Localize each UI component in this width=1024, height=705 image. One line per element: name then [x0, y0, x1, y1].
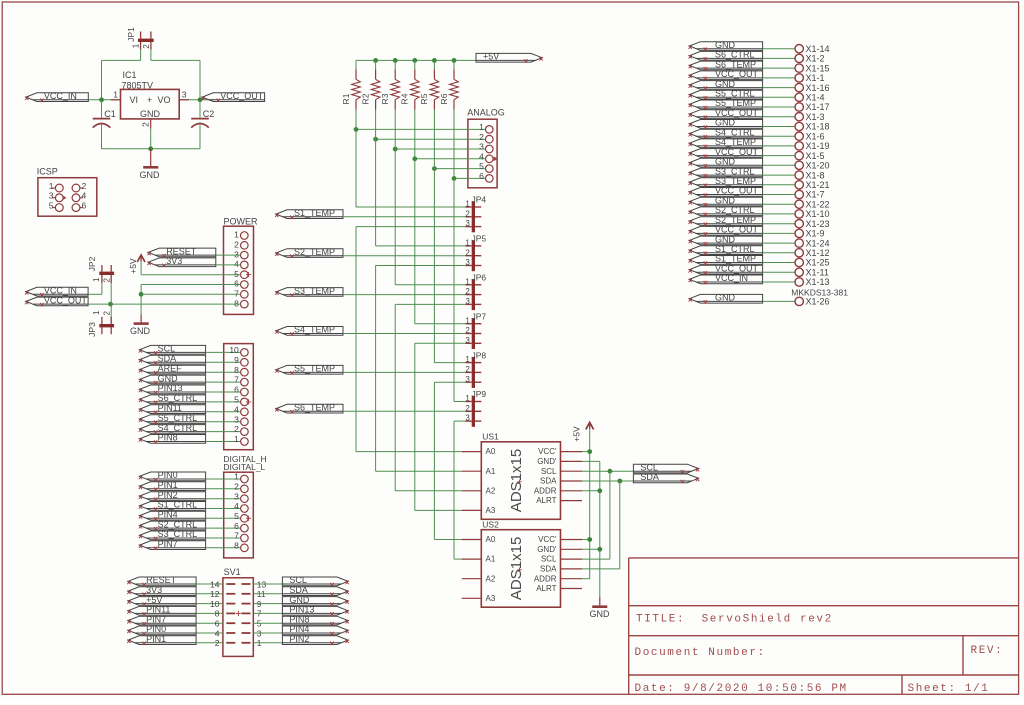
svg-text:10: 10: [210, 599, 220, 609]
svg-text:4: 4: [234, 259, 239, 269]
svg-text:5: 5: [479, 161, 484, 171]
svg-text:ADS1x15: ADS1x15: [508, 537, 525, 600]
svg-text:X1-1: X1-1: [806, 73, 825, 83]
svg-text:PIN4: PIN4: [289, 624, 309, 634]
svg-text:+5V: +5V: [128, 258, 138, 274]
svg-text:X1-10: X1-10: [806, 209, 830, 219]
svg-text:VCC_OUT: VCC_OUT: [220, 91, 264, 101]
svg-text:X1-24: X1-24: [806, 238, 830, 248]
svg-text:2: 2: [215, 638, 220, 648]
svg-text:JP8: JP8: [472, 350, 487, 360]
svg-text:6: 6: [234, 385, 239, 395]
svg-text:X1-19: X1-19: [806, 141, 830, 151]
svg-text:3V3: 3V3: [146, 585, 162, 595]
svg-text:6: 6: [234, 521, 239, 531]
svg-text:X1-14: X1-14: [806, 44, 830, 54]
svg-text:1: 1: [234, 230, 239, 240]
svg-text:GND: GND: [715, 40, 736, 50]
svg-text:2: 2: [142, 44, 151, 49]
svg-text:4: 4: [234, 501, 239, 511]
svg-text:X1-4: X1-4: [806, 93, 825, 103]
svg-text:2: 2: [465, 326, 470, 335]
svg-text:S2_CTRL: S2_CTRL: [158, 519, 198, 529]
svg-text:R4: R4: [400, 93, 410, 104]
svg-text:1: 1: [113, 90, 118, 100]
svg-text:GND: GND: [715, 157, 736, 167]
svg-text:5: 5: [234, 511, 239, 521]
svg-text:X1-20: X1-20: [806, 161, 830, 171]
svg-text:SDA: SDA: [289, 585, 308, 595]
svg-text:GND: GND: [140, 109, 161, 119]
svg-text:PIN1: PIN1: [158, 480, 178, 490]
svg-text:RESET: RESET: [146, 575, 177, 585]
svg-text:S5_CTRL: S5_CTRL: [715, 89, 755, 99]
svg-text:1: 1: [465, 355, 470, 364]
svg-text:S2_CTRL: S2_CTRL: [715, 205, 755, 215]
svg-text:1: 1: [92, 277, 101, 282]
svg-text:S1_TEMP: S1_TEMP: [715, 254, 756, 264]
svg-text:+: +: [147, 95, 152, 105]
svg-text:3: 3: [49, 191, 54, 201]
svg-text:VCC_IN: VCC_IN: [715, 273, 748, 283]
svg-text:RESET: RESET: [166, 246, 197, 256]
svg-text:VCC_IN: VCC_IN: [44, 286, 77, 296]
svg-text:Document Number:: Document Number:: [635, 647, 766, 659]
svg-text:PIN13: PIN13: [158, 383, 183, 393]
svg-text:S6_TEMP: S6_TEMP: [715, 59, 756, 69]
svg-text:3V3: 3V3: [166, 256, 182, 266]
svg-text:Sheet: 1/1: Sheet: 1/1: [908, 683, 990, 695]
svg-text:ADDR: ADDR: [534, 486, 557, 495]
svg-text:2: 2: [234, 424, 239, 434]
svg-text:GND': GND': [537, 457, 557, 466]
svg-text:2: 2: [465, 248, 470, 257]
svg-text:GND: GND: [130, 326, 151, 336]
svg-text:S6_TEMP: S6_TEMP: [294, 403, 335, 413]
svg-text:C2: C2: [203, 109, 215, 119]
svg-text:7805TV: 7805TV: [122, 80, 154, 90]
svg-text:S5_TEMP: S5_TEMP: [294, 364, 335, 374]
svg-text:6: 6: [479, 171, 484, 181]
svg-text:S3_CTRL: S3_CTRL: [715, 166, 755, 176]
svg-text:A3: A3: [486, 594, 496, 603]
svg-text:X1-22: X1-22: [806, 199, 830, 209]
svg-text:3: 3: [465, 297, 470, 306]
svg-text:SDA: SDA: [540, 565, 557, 574]
svg-text:VO: VO: [158, 95, 171, 105]
svg-text:S5_TEMP: S5_TEMP: [715, 98, 756, 108]
svg-text:X1-23: X1-23: [806, 219, 830, 229]
svg-text:VCC_OUT: VCC_OUT: [715, 225, 759, 235]
svg-text:PIN1: PIN1: [146, 634, 166, 644]
svg-text:1: 1: [49, 181, 54, 191]
svg-text:3: 3: [465, 336, 470, 345]
svg-text:X1-6: X1-6: [806, 131, 825, 141]
svg-text:3: 3: [234, 414, 239, 424]
svg-text:3: 3: [465, 375, 470, 384]
svg-text:2: 2: [465, 209, 470, 218]
svg-text:PIN13: PIN13: [289, 605, 314, 615]
svg-text:JP7: JP7: [472, 311, 487, 321]
svg-text:S4_TEMP: S4_TEMP: [715, 137, 756, 147]
svg-text:GND': GND': [537, 545, 557, 554]
svg-text:PIN11: PIN11: [158, 403, 182, 413]
svg-text:+5V: +5V: [571, 426, 581, 442]
svg-text:X1-21: X1-21: [806, 180, 830, 190]
svg-text:VCC_OUT: VCC_OUT: [715, 264, 759, 274]
svg-text:1: 1: [479, 122, 484, 132]
svg-text:ALRT: ALRT: [536, 496, 556, 505]
svg-text:JP9: JP9: [472, 389, 487, 399]
svg-text:GND: GND: [140, 170, 161, 180]
svg-text:X1-12: X1-12: [806, 248, 830, 258]
svg-text:VCC_OUT: VCC_OUT: [715, 108, 759, 118]
svg-text:R6: R6: [439, 93, 449, 104]
svg-text:4: 4: [234, 404, 239, 414]
svg-text:S6_CTRL: S6_CTRL: [158, 393, 198, 403]
svg-text:S3_CTRL: S3_CTRL: [158, 529, 198, 539]
svg-text:6: 6: [215, 619, 220, 629]
svg-text:2: 2: [465, 365, 470, 374]
svg-text:PIN7: PIN7: [158, 539, 178, 549]
svg-text:2: 2: [465, 404, 470, 413]
svg-text:2: 2: [102, 311, 111, 316]
svg-text:PIN0: PIN0: [146, 624, 166, 634]
svg-text:SV1: SV1: [224, 567, 241, 577]
svg-text:X1-26: X1-26: [806, 297, 830, 307]
svg-text:1: 1: [465, 239, 470, 248]
svg-text:X1-17: X1-17: [806, 102, 830, 112]
svg-text:S4_CTRL: S4_CTRL: [158, 423, 198, 433]
svg-text:9: 9: [234, 355, 239, 365]
svg-text:ANALOG: ANALOG: [467, 108, 505, 118]
svg-text:ADDR: ADDR: [534, 574, 557, 583]
svg-text:2: 2: [234, 481, 239, 491]
svg-text:VCC': VCC': [538, 447, 557, 456]
svg-text:PIN8: PIN8: [289, 614, 309, 624]
svg-text:PIN2: PIN2: [289, 634, 309, 644]
svg-text:X1-15: X1-15: [806, 63, 830, 73]
svg-text:8: 8: [234, 540, 239, 550]
svg-text:SCL: SCL: [289, 575, 307, 585]
svg-text:PIN11: PIN11: [146, 605, 170, 615]
svg-text:JP2: JP2: [87, 256, 97, 271]
svg-text:S6_CTRL: S6_CTRL: [715, 50, 755, 60]
svg-text:A2: A2: [486, 574, 496, 583]
svg-text:6: 6: [234, 279, 239, 289]
svg-text:5: 5: [49, 200, 54, 210]
svg-text:1: 1: [234, 472, 239, 482]
svg-text:GND: GND: [715, 293, 736, 303]
svg-text:ICSP: ICSP: [37, 167, 58, 177]
svg-text:2: 2: [141, 122, 151, 127]
svg-text:US2: US2: [482, 519, 499, 529]
svg-text:SCL: SCL: [158, 344, 176, 354]
svg-text:VCC_OUT: VCC_OUT: [715, 147, 759, 157]
svg-text:3: 3: [479, 142, 484, 152]
svg-text:PIN2: PIN2: [158, 490, 178, 500]
svg-text:SDA: SDA: [540, 477, 557, 486]
svg-text:3: 3: [465, 258, 470, 267]
svg-text:S4_CTRL: S4_CTRL: [715, 127, 755, 137]
svg-text:7: 7: [234, 375, 239, 385]
svg-text:SCL: SCL: [640, 462, 658, 472]
svg-text:A2: A2: [486, 486, 496, 495]
svg-text:AREF: AREF: [158, 363, 183, 373]
svg-text:Date: 9/8/2020 10:50:56 PM: Date: 9/8/2020 10:50:56 PM: [635, 683, 848, 695]
svg-text:VCC_IN: VCC_IN: [44, 91, 77, 101]
svg-text:GND: GND: [289, 595, 310, 605]
svg-text:JP4: JP4: [472, 195, 487, 205]
svg-text:X1-18: X1-18: [806, 122, 830, 132]
svg-text:1: 1: [234, 434, 239, 444]
svg-text:1: 1: [465, 277, 470, 286]
svg-text:VCC_OUT: VCC_OUT: [715, 69, 759, 79]
svg-text:X1-7: X1-7: [806, 190, 825, 200]
svg-text:US1: US1: [482, 432, 499, 442]
svg-text:X1-9: X1-9: [806, 229, 825, 239]
svg-text:GND: GND: [715, 234, 736, 244]
svg-text:7: 7: [234, 531, 239, 541]
svg-text:S3_TEMP: S3_TEMP: [715, 176, 756, 186]
svg-text:X1-5: X1-5: [806, 151, 825, 161]
svg-text:2: 2: [479, 132, 484, 142]
svg-text:6: 6: [82, 200, 87, 210]
svg-text:R5: R5: [419, 93, 429, 104]
svg-text:REV:: REV:: [971, 645, 1004, 657]
svg-text:14: 14: [210, 579, 220, 589]
svg-text:8: 8: [215, 609, 220, 619]
svg-text:3: 3: [182, 90, 187, 100]
svg-text:PIN4: PIN4: [158, 510, 178, 520]
svg-text:X1-25: X1-25: [806, 258, 830, 268]
svg-text:A1: A1: [486, 467, 496, 476]
svg-text:X1-2: X1-2: [806, 54, 825, 64]
svg-text:DIGITAL_L: DIGITAL_L: [223, 462, 265, 472]
svg-text:VCC_OUT: VCC_OUT: [715, 186, 759, 196]
svg-text:GND: GND: [158, 373, 179, 383]
svg-text:JP3: JP3: [87, 322, 97, 337]
svg-text:2: 2: [102, 278, 111, 283]
svg-text:3: 3: [234, 491, 239, 501]
svg-text:VCC': VCC': [538, 535, 557, 544]
svg-text:R2: R2: [360, 93, 370, 104]
svg-text:A1: A1: [486, 555, 496, 564]
svg-text:IC1: IC1: [123, 70, 137, 80]
svg-text:3: 3: [234, 249, 239, 259]
svg-text:1: 1: [132, 43, 141, 48]
svg-text:POWER: POWER: [224, 216, 259, 226]
svg-text:1: 1: [465, 200, 470, 209]
svg-text:SCL: SCL: [541, 467, 557, 476]
svg-text:R3: R3: [380, 93, 390, 104]
svg-text:S1_CTRL: S1_CTRL: [158, 500, 198, 510]
svg-text:GND: GND: [715, 118, 736, 128]
svg-text:A3: A3: [486, 506, 496, 515]
svg-text:7: 7: [234, 289, 239, 299]
svg-text:4: 4: [479, 151, 484, 161]
svg-text:VI: VI: [130, 95, 139, 105]
svg-text:X1-8: X1-8: [806, 170, 825, 180]
svg-text:5: 5: [234, 395, 239, 405]
svg-text:12: 12: [210, 589, 220, 599]
svg-text:S1_TEMP: S1_TEMP: [294, 208, 335, 218]
svg-text:VCC_OUT: VCC_OUT: [44, 295, 88, 305]
svg-text:PIN7: PIN7: [146, 614, 166, 624]
svg-text:8: 8: [234, 365, 239, 375]
svg-text:S4_TEMP: S4_TEMP: [294, 325, 335, 335]
svg-text:X1-11: X1-11: [806, 268, 829, 278]
svg-text:5: 5: [234, 269, 239, 279]
svg-text:S2_TEMP: S2_TEMP: [715, 215, 756, 225]
svg-text:1: 1: [92, 310, 101, 315]
svg-text:X1-13: X1-13: [806, 277, 830, 287]
svg-text:GND: GND: [590, 609, 611, 619]
svg-text:TITLE: ServoShield rev2: TITLE: ServoShield rev2: [636, 614, 833, 626]
svg-text:S3_TEMP: S3_TEMP: [294, 286, 335, 296]
svg-text:S5_CTRL: S5_CTRL: [158, 413, 198, 423]
svg-text:+5V: +5V: [483, 52, 499, 62]
svg-text:2: 2: [465, 287, 470, 296]
svg-text:1: 1: [465, 316, 470, 325]
svg-text:ALRT: ALRT: [536, 584, 556, 593]
svg-text:3: 3: [465, 219, 470, 228]
svg-text:ADS1x15: ADS1x15: [508, 449, 525, 512]
svg-text:R1: R1: [341, 93, 351, 104]
svg-text:JP1: JP1: [126, 27, 136, 42]
svg-text:8: 8: [234, 298, 239, 308]
svg-text:C1: C1: [104, 109, 116, 119]
svg-text:PIN8: PIN8: [158, 433, 178, 443]
svg-text:SCL: SCL: [541, 555, 557, 564]
svg-text:2: 2: [234, 240, 239, 250]
svg-text:SDA: SDA: [158, 354, 177, 364]
svg-text:JP6: JP6: [472, 273, 487, 283]
svg-text:3: 3: [465, 414, 470, 423]
svg-text:JP5: JP5: [472, 234, 487, 244]
svg-text:X1-16: X1-16: [806, 83, 830, 93]
svg-text:GND: GND: [715, 79, 736, 89]
svg-text:S2_TEMP: S2_TEMP: [294, 247, 335, 257]
svg-text:PIN0: PIN0: [158, 470, 178, 480]
svg-text:A0: A0: [486, 447, 496, 456]
svg-text:2: 2: [82, 181, 87, 191]
svg-text:SDA: SDA: [640, 472, 659, 482]
svg-text:GND: GND: [715, 195, 736, 205]
svg-text:4: 4: [82, 191, 87, 201]
svg-text:S1_CTRL: S1_CTRL: [715, 244, 755, 254]
svg-text:1: 1: [465, 394, 470, 403]
svg-text:10: 10: [229, 345, 239, 355]
svg-text:4: 4: [215, 628, 220, 638]
svg-text:X1-3: X1-3: [806, 112, 825, 122]
svg-text:+5V: +5V: [146, 595, 162, 605]
svg-text:A0: A0: [486, 535, 496, 544]
